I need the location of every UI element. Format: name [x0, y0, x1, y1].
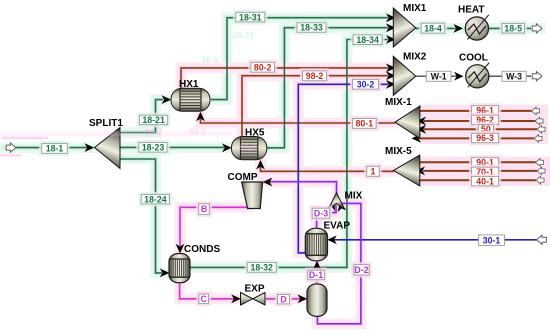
mixer MIX-1: [395, 106, 420, 139]
stream 1: [256, 160, 394, 171]
svg-text:80-2: 80-2: [254, 62, 272, 72]
svg-text:18-5: 18-5: [504, 23, 522, 33]
wire ghost artifacts: [0, 30, 257, 155]
stream W-1: [416, 72, 464, 81]
label 98-2: [300, 68, 329, 83]
svg-text:MIX2: MIX2: [403, 52, 427, 63]
label 96-1: [469, 103, 501, 118]
svg-text:80-2: 80-2: [189, 127, 206, 137]
svg-text:18-34: 18-34: [356, 35, 379, 45]
label EVAP: [324, 220, 351, 231]
label EXP: [245, 284, 265, 295]
stream 80-2: [181, 64, 396, 90]
stream MIX to COMP: [263, 178, 337, 195]
label MIX: [345, 191, 363, 202]
label 50: [476, 122, 496, 136]
label COOL: [459, 53, 488, 64]
evaporator EVAP: [305, 228, 327, 260]
svg-text:18-31: 18-31: [232, 30, 254, 40]
label 96-3: [469, 131, 501, 146]
svg-text:18-5: 18-5: [201, 55, 218, 65]
svg-text:18-21: 18-21: [142, 115, 165, 125]
label 18-34: [351, 32, 385, 47]
label 18-32: [245, 260, 279, 275]
svg-text:D-1: D-1: [309, 270, 323, 280]
svg-text:MIX1: MIX1: [403, 3, 427, 14]
label C: [196, 291, 211, 306]
label 18-31: [233, 10, 267, 25]
label W-1: [426, 71, 451, 81]
mixer MIX1: [393, 8, 416, 47]
label 18-21: [137, 113, 171, 128]
svg-text:18-24: 18-24: [144, 194, 167, 204]
stream 18-23: [120, 143, 232, 152]
label D-3: [310, 206, 333, 221]
heat exchanger HX5: [232, 137, 267, 160]
stream 96-2: [417, 117, 544, 126]
label MIX2: [403, 52, 427, 63]
svg-text:HX5: HX5: [245, 128, 265, 139]
stream 70-1: [416, 167, 546, 176]
svg-text:D: D: [280, 294, 286, 304]
mixer MIX2: [393, 56, 416, 95]
label D-2: [351, 262, 372, 278]
label W-3: [502, 71, 526, 81]
label HX5: [245, 128, 265, 139]
stream 18-1: [6, 143, 94, 152]
stream 18-31: [211, 13, 396, 99]
stream 18-4: [416, 24, 463, 33]
mixer MIX-5: [394, 155, 420, 186]
heater HEAT: [465, 15, 489, 40]
svg-text:80-1: 80-1: [355, 119, 373, 129]
svg-text:18-33: 18-33: [300, 23, 323, 33]
label HX1: [179, 79, 199, 90]
svg-text:W-3: W-3: [506, 72, 522, 82]
label 90-1: [469, 155, 501, 170]
stream B: [176, 207, 248, 253]
svg-text:D-2: D-2: [354, 265, 368, 275]
splitter SPLIT1: [95, 128, 121, 169]
stream 30-1: [327, 235, 546, 244]
flash drum: [307, 284, 327, 316]
stream C: [180, 283, 241, 303]
svg-text:1: 1: [371, 167, 376, 177]
stream D: [266, 294, 307, 303]
svg-text:30-2: 30-2: [357, 79, 375, 89]
label 30-1: [479, 235, 505, 246]
label COMP: [228, 172, 258, 183]
stream W-3: [489, 72, 542, 81]
stream 18-21: [120, 95, 171, 132]
svg-text:EVAP: EVAP: [324, 220, 351, 231]
condenser CONDS: [169, 254, 190, 283]
svg-text:18-4: 18-4: [424, 23, 442, 33]
stream 18-5: [489, 24, 543, 33]
label 80-1: [350, 116, 379, 131]
cooler COOL: [466, 63, 490, 88]
stream 96-1: [412, 107, 540, 116]
stream 98-2: [242, 71, 396, 137]
svg-text:EXP: EXP: [245, 284, 265, 295]
label 18-1: [39, 141, 70, 156]
label 30-2: [350, 77, 381, 92]
svg-text:80-2: 80-2: [145, 127, 162, 137]
svg-text:98-2: 98-2: [239, 143, 256, 153]
svg-text:COMP: COMP: [228, 172, 258, 183]
label D-1: [305, 268, 327, 283]
stream D-2: [317, 201, 361, 324]
svg-text:COOL: COOL: [459, 53, 488, 64]
valve EXP: [241, 293, 266, 306]
stream D-3: [317, 199, 339, 228]
svg-text:D-3: D-3: [314, 208, 328, 218]
stream 18-24: [120, 159, 169, 277]
label CONDS: [184, 244, 220, 255]
label 80-2: [248, 60, 277, 75]
label 18-24: [139, 192, 173, 207]
label 70-1: [469, 165, 501, 180]
stream 30-2: [298, 80, 395, 253]
svg-text:W-1: W-1: [431, 72, 447, 82]
svg-text:18-23: 18-23: [142, 143, 165, 153]
svg-text:CONDS: CONDS: [184, 244, 220, 255]
svg-text:40-1: 40-1: [476, 176, 494, 186]
svg-text:MIX-1: MIX-1: [385, 97, 412, 108]
stream 50: [417, 125, 546, 134]
label SPLIT1: [89, 118, 123, 129]
svg-text:SPLIT1: SPLIT1: [89, 118, 123, 129]
label 18-5: [499, 21, 527, 36]
stream 40-1: [411, 176, 545, 185]
stream 18-32 / 18-34: [190, 35, 396, 267]
compressor COMP: [242, 182, 263, 209]
stream 90-1: [411, 158, 544, 167]
svg-text:96-3: 96-3: [476, 133, 494, 143]
svg-text:18-31: 18-31: [239, 12, 262, 22]
svg-text:MIX: MIX: [345, 191, 363, 202]
label MIX-5: [385, 146, 412, 157]
svg-text:98-2: 98-2: [306, 71, 324, 81]
label B: [196, 201, 212, 217]
label MIX-1: [385, 97, 412, 108]
label 18-23: [136, 140, 170, 155]
label 40-1: [469, 174, 501, 189]
label HEAT: [458, 5, 484, 16]
svg-text:18-1: 18-1: [46, 144, 64, 154]
svg-text:MIX-5: MIX-5: [385, 146, 412, 157]
svg-text:C: C: [201, 294, 208, 304]
svg-text:B: B: [201, 204, 207, 214]
svg-text:HEAT: HEAT: [458, 5, 484, 16]
label 18-4: [419, 21, 448, 36]
stream 96-3: [412, 134, 543, 143]
stream 18-33: [267, 23, 396, 147]
svg-text:30-1: 30-1: [483, 235, 501, 245]
stream D-1: [313, 261, 322, 283]
svg-text:HX1: HX1: [179, 79, 199, 90]
label 18-33: [294, 20, 328, 35]
stream 80-1: [196, 112, 395, 123]
label D: [275, 292, 292, 307]
heat exchanger HX1: [171, 88, 210, 111]
svg-text:18-32: 18-32: [250, 263, 273, 273]
label 96-2: [469, 113, 501, 128]
label 1: [364, 164, 382, 179]
mixer MIX (small): [328, 193, 345, 210]
label MIX1: [403, 3, 427, 14]
